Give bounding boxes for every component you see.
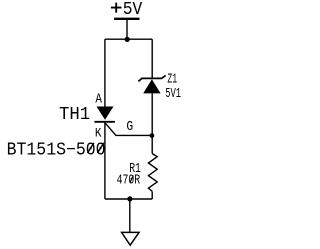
- resistor R1 zigzag: [148, 154, 157, 192]
- svg-text:5V: 5V: [123, 0, 143, 20]
- svg-text:470R: 470R: [117, 173, 141, 188]
- svg-text:BT151S−500: BT151S−500: [7, 140, 106, 160]
- svg-text:TH1: TH1: [59, 104, 90, 125]
- +5V supply label plus sign: [111, 3, 122, 13]
- svg-text:Z1: Z1: [167, 73, 177, 88]
- wire from +5V bar to top node: [126, 19, 128, 39]
- thyristor TH1 triangle: [97, 107, 114, 120]
- wire bottom horizontal: [105, 198, 152, 200]
- svg-text:K: K: [95, 126, 102, 141]
- junction bottom node: [127, 196, 132, 201]
- wire right branch middle Z1 anode to R1: [151, 93, 153, 153]
- slash of second zero in BT151S-500: [97, 143, 103, 153]
- wire right branch lower R1 to bottom rail: [151, 191, 153, 199]
- wire top horizontal: [105, 38, 152, 40]
- wire gate horizontal: [116, 134, 153, 136]
- svg-text:5V1: 5V1: [165, 87, 181, 102]
- wire left branch lower from TH1 cathode: [104, 122, 106, 199]
- wire ground stem: [129, 199, 131, 232]
- wire left branch upper to TH1 anode: [104, 39, 106, 107]
- junction top node: [125, 37, 130, 42]
- thyristor TH1 gate lead diagonal: [105, 123, 116, 136]
- junction gate node: [150, 133, 155, 138]
- wire right branch upper to Z1 cathode: [151, 39, 153, 78]
- svg-text:A: A: [95, 92, 102, 107]
- zener diode Z1 triangle: [143, 79, 160, 93]
- +5V rail bar: [114, 18, 139, 20]
- ground symbol: [122, 232, 139, 245]
- slash of first zero in BT151S-500: [88, 143, 94, 153]
- thyristor TH1 cathode bar: [94, 121, 115, 123]
- svg-text:G: G: [126, 120, 133, 135]
- slash of zero in 470R: [130, 176, 134, 183]
- zener diode Z1 cathode bar with bent tails: [138, 75, 165, 81]
